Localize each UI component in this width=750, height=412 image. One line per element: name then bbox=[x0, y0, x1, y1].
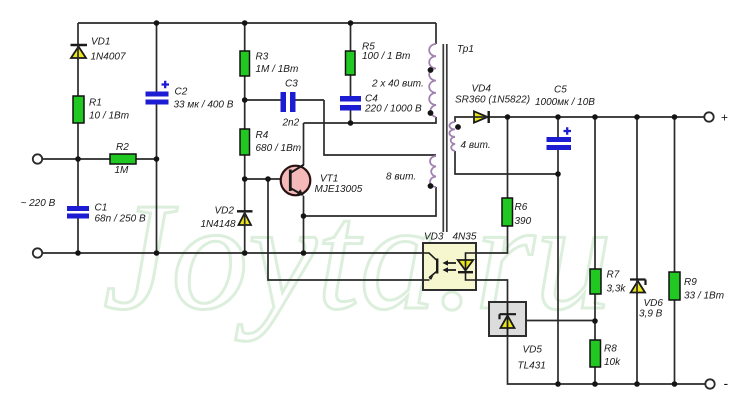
node base junctions bbox=[242, 176, 248, 182]
wire VD4 cathode to plus terminal bbox=[489, 116, 705, 118]
node bottom rail junctions bbox=[75, 250, 81, 256]
wire VD1/R1 column bbox=[77, 23, 79, 159]
wire C3 to feedback winding bbox=[324, 100, 436, 155]
svg-text:VD2: VD2 bbox=[215, 206, 235, 217]
wire base row bbox=[245, 178, 290, 180]
svg-text:1N4007: 1N4007 bbox=[91, 52, 126, 63]
svg-text:VT1: VT1 bbox=[320, 174, 338, 185]
svg-text:10 / 1Вт: 10 / 1Вт bbox=[89, 111, 129, 122]
svg-text:-: - bbox=[724, 375, 729, 391]
diode VD2 bbox=[201, 206, 253, 231]
wire C3 row bbox=[245, 99, 324, 101]
diode VD4 bbox=[455, 84, 530, 124]
svg-text:VD5: VD5 bbox=[523, 345, 543, 356]
resistor R4 bbox=[240, 129, 301, 155]
optocoupler VD3 4N35 bbox=[423, 232, 477, 291]
transistor VT1 bbox=[281, 165, 363, 196]
capacitor C5 bbox=[535, 85, 595, 151]
resistor R3 bbox=[240, 51, 298, 76]
svg-text:1000мк / 10В: 1000мк / 10В bbox=[535, 97, 595, 108]
svg-text:1M / 1Вт: 1M / 1Вт bbox=[256, 64, 299, 75]
transformer Tp1 core bbox=[443, 44, 474, 232]
svg-text:TL431: TL431 bbox=[518, 361, 546, 372]
svg-text:220 / 1000 В: 220 / 1000 В bbox=[364, 104, 422, 115]
svg-text:2n2: 2n2 bbox=[282, 118, 300, 129]
wire secondary bottom row bbox=[455, 151, 558, 174]
shunt regulator VD5 TL431 bbox=[489, 302, 546, 372]
svg-text:~ 220 В: ~ 220 В bbox=[21, 198, 56, 209]
svg-text:100 / 1 Вт: 100 / 1 Вт bbox=[362, 51, 410, 62]
svg-text:2 x 40 вит.: 2 x 40 вит. bbox=[371, 79, 424, 90]
wire emitter to winding row bbox=[304, 187, 437, 216]
node C5 bottom junction bbox=[555, 171, 561, 177]
svg-text:3,3k: 3,3k bbox=[607, 284, 627, 295]
opto phototransistor bbox=[423, 253, 436, 260]
wire opto cathode to TL431 bbox=[476, 280, 508, 302]
opto light arrows bbox=[446, 263, 456, 270]
svg-text:R2: R2 bbox=[116, 142, 129, 153]
transformer Tp1 feedback winding bbox=[386, 156, 436, 189]
svg-text:C2: C2 bbox=[175, 87, 188, 98]
svg-text:MJE13005: MJE13005 bbox=[315, 184, 363, 195]
svg-text:1M: 1M bbox=[115, 165, 130, 176]
svg-text:R6: R6 bbox=[515, 202, 528, 213]
diode VD1 bbox=[71, 37, 126, 63]
node ref divider junction bbox=[592, 318, 598, 324]
svg-text:10k: 10k bbox=[604, 357, 621, 368]
svg-text:1N4148: 1N4148 bbox=[201, 219, 236, 230]
resistor R1 bbox=[73, 96, 129, 123]
resistor R8 bbox=[590, 340, 621, 368]
wire collector row to snubber and primary bbox=[304, 117, 437, 123]
svg-text:SR360 (1N5822): SR360 (1N5822) bbox=[455, 95, 530, 106]
svg-text:VD4: VD4 bbox=[472, 84, 492, 95]
opto LED bbox=[458, 260, 473, 271]
capacitor C3 bbox=[281, 79, 300, 129]
svg-text:VD6: VD6 bbox=[644, 298, 664, 309]
wire C5 column bbox=[557, 117, 559, 174]
wire C2 column bbox=[156, 23, 158, 253]
svg-text:33 мк / 400 В: 33 мк / 400 В bbox=[174, 100, 234, 111]
svg-text:68n / 250 В: 68n / 250 В bbox=[95, 214, 146, 225]
svg-text:4 вит.: 4 вит. bbox=[461, 140, 491, 151]
svg-text:390: 390 bbox=[515, 216, 532, 227]
node emitter junction bbox=[301, 213, 307, 219]
svg-text:33 / 1Вт: 33 / 1Вт bbox=[684, 291, 724, 302]
node top rail junctions bbox=[75, 20, 677, 387]
svg-text:VD3: VD3 bbox=[424, 232, 444, 243]
wire C1 column bbox=[77, 159, 79, 253]
svg-text:8 вит.: 8 вит. bbox=[386, 172, 416, 183]
wire secondary top to VD4 bbox=[455, 117, 474, 122]
node plus rail junctions bbox=[505, 114, 511, 120]
wire C5 minus column bbox=[557, 174, 559, 384]
node C3 junction bbox=[242, 97, 248, 103]
resistor R7 bbox=[590, 269, 626, 295]
svg-text:VD1: VD1 bbox=[91, 37, 110, 48]
wire R5 C4 column bbox=[350, 23, 352, 123]
wire R9 column bbox=[674, 117, 676, 384]
wire collector column bbox=[303, 123, 305, 165]
resistor R6 bbox=[502, 198, 532, 227]
wire primary feeds bbox=[435, 23, 437, 44]
wire bottom mains rail bbox=[42, 252, 423, 254]
capacitor C2 bbox=[146, 81, 234, 111]
wire TL431 ref to divider bbox=[526, 320, 595, 322]
resistor R9 bbox=[669, 272, 724, 302]
svg-text:R8: R8 bbox=[604, 344, 617, 355]
wire VD6 column bbox=[636, 117, 638, 384]
svg-text:3,9 В: 3,9 В bbox=[639, 309, 663, 320]
svg-text:R4: R4 bbox=[256, 130, 269, 141]
svg-text:4N35: 4N35 bbox=[453, 232, 477, 243]
transformer Tp1 secondary winding bbox=[449, 122, 490, 151]
svg-text:C5: C5 bbox=[554, 85, 567, 96]
svg-text:Joyta.ru: Joyta.ru bbox=[103, 172, 612, 342]
terminal input neutral bbox=[33, 248, 42, 257]
wire R6 column bbox=[476, 117, 508, 253]
svg-text:R1: R1 bbox=[89, 98, 102, 109]
svg-text:R9: R9 bbox=[684, 277, 697, 288]
svg-text:680 / 1Вт: 680 / 1Вт bbox=[256, 143, 302, 154]
resistor R5 bbox=[346, 42, 411, 76]
wire R3 R4 column bbox=[244, 23, 246, 253]
zener diode VD6 bbox=[630, 280, 663, 320]
svg-text:C1: C1 bbox=[95, 203, 108, 214]
capacitor C4 bbox=[340, 94, 422, 115]
terminal output minus bbox=[705, 379, 714, 388]
wire opto emitter branch bbox=[268, 179, 423, 280]
wire TL431 anode to minus rail bbox=[508, 336, 706, 384]
svg-text:C3: C3 bbox=[285, 79, 298, 90]
node minus rail junctions bbox=[555, 381, 561, 387]
svg-text:Тр1: Тр1 bbox=[457, 44, 474, 55]
capacitor C1 bbox=[67, 203, 146, 225]
wire R7 R8 column bbox=[594, 117, 596, 384]
terminal input live bbox=[33, 154, 42, 163]
svg-text:+: + bbox=[721, 111, 728, 125]
svg-text:R7: R7 bbox=[607, 270, 620, 281]
node live row junctions bbox=[75, 156, 81, 162]
resistor R2 bbox=[110, 142, 136, 176]
node snubber junction bbox=[348, 120, 354, 126]
wire input row live bbox=[42, 158, 157, 160]
wire emitter column bbox=[303, 196, 305, 253]
svg-text:R3: R3 bbox=[256, 52, 269, 63]
transformer Tp1 primary winding bbox=[371, 44, 436, 117]
wire top rail bbox=[78, 22, 436, 24]
terminal output plus bbox=[704, 112, 713, 121]
